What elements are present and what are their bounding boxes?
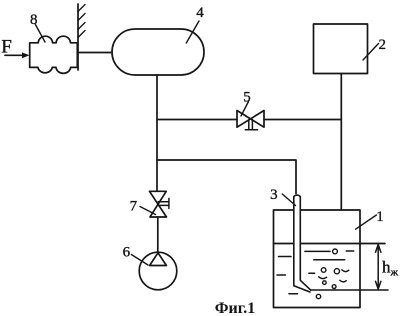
bubble: [334, 269, 339, 274]
liquid dash: [309, 272, 315, 274]
leader to 7: [140, 207, 156, 215]
wire: lower branch to tube 3: [157, 160, 296, 194]
svg-text:2: 2: [378, 37, 386, 53]
tank 1: [274, 210, 361, 308]
vessel 4 (horizontal pressure tank): [112, 29, 204, 75]
liquid arc: [319, 277, 327, 279]
svg-text:4: 4: [196, 5, 204, 21]
liquid dash: [279, 256, 292, 258]
leader to 3: [282, 194, 295, 206]
leader to 2: [363, 44, 379, 61]
svg-text:3: 3: [270, 187, 278, 203]
wire: block 2 down to tank 1: [340, 74, 342, 211]
svg-text:1: 1: [376, 209, 384, 225]
tube 3 white body: [293, 194, 301, 286]
svg-text:7: 7: [130, 199, 138, 215]
leader to 8: [35, 25, 45, 43]
wire: bellows to vessel 4: [78, 52, 112, 54]
pump 6: [139, 252, 177, 290]
svg-text:Фиг.1: Фиг.1: [215, 300, 255, 316]
dimension arrow h: [377, 247, 379, 288]
bubble: [316, 294, 320, 298]
valve 7: [150, 191, 167, 217]
pump triangle: [150, 253, 167, 266]
tube 3: [294, 195, 311, 292]
wire: vessel 4 down to valve 7: [156, 75, 158, 191]
liquid arc: [342, 270, 349, 272]
svg-text:6: 6: [123, 245, 131, 261]
bubble: [333, 249, 338, 254]
liquid arc: [340, 280, 347, 282]
svg-text:ж: ж: [390, 267, 399, 279]
svg-text:F: F: [1, 37, 12, 58]
liquid dash: [277, 274, 286, 276]
leader to 6: [131, 255, 148, 266]
bubble: [332, 285, 336, 289]
liquid dash: [346, 250, 353, 252]
leader to 4: [186, 21, 199, 43]
bellows 8: [30, 36, 78, 73]
bubble: [321, 268, 326, 273]
wall (fixed support): [77, 4, 79, 70]
liquid dash: [289, 293, 298, 295]
bubble: [323, 281, 327, 285]
valve 5: [237, 111, 264, 128]
leader to 1: [356, 215, 377, 229]
wire: valve 5 to right riser: [264, 119, 341, 121]
leader to 5: [241, 102, 249, 117]
tube outlet depth line: [311, 289, 388, 291]
force F arrow: [5, 54, 23, 56]
liquid level line: [274, 243, 386, 245]
block 2: [314, 24, 368, 74]
liquid dash long: [305, 250, 330, 252]
liquid dash long: [314, 259, 345, 261]
wire: valve 7 to pump 6: [157, 217, 159, 253]
wire: branch to valve 5 (left part): [157, 119, 237, 121]
